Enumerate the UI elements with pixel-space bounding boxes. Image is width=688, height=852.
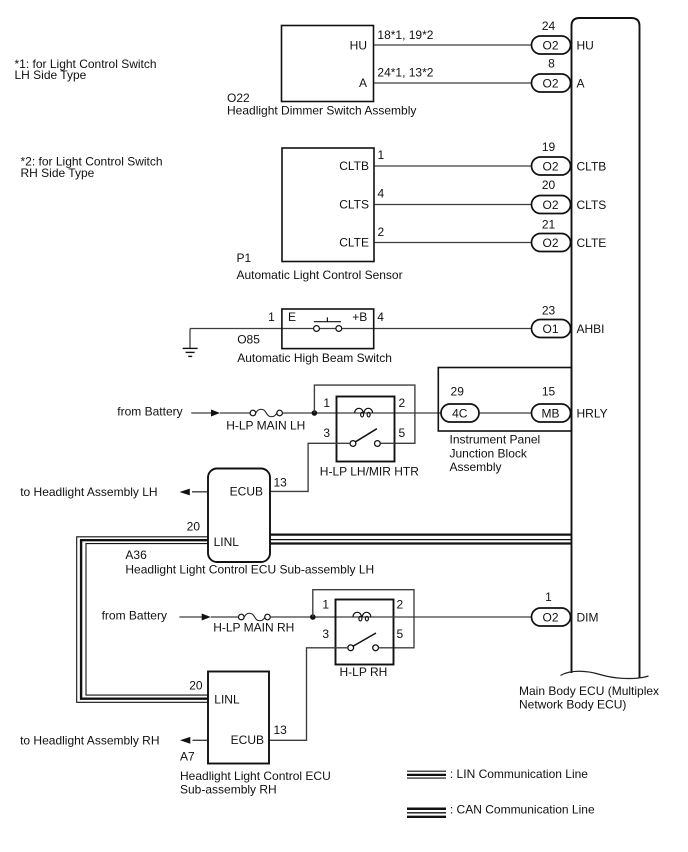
wire P1 CLTE: [374, 242, 532, 244]
svg-text:CLTS: CLTS: [339, 198, 369, 212]
svg-text:Main Body ECU (Multiplex: Main Body ECU (Multiplex: [519, 684, 659, 698]
svg-text:Headlight Light Control ECU Su: Headlight Light Control ECU Sub-assembly…: [125, 563, 374, 577]
svg-text:to Headlight Assembly RH: to Headlight Assembly RH: [20, 734, 159, 748]
svg-text:1: 1: [268, 310, 275, 324]
wire fuse to relay LH: [282, 412, 336, 414]
svg-text:from Battery: from Battery: [117, 404, 182, 418]
svg-text:24*1, 13*2: 24*1, 13*2: [377, 66, 433, 80]
wire arrow to Headlight Assembly LH: [20, 485, 208, 499]
wire P1 CLTS: [374, 204, 532, 206]
svg-text:P1: P1: [237, 251, 252, 265]
svg-text:A7: A7: [180, 749, 195, 763]
connector oval O2 pin 8 A: [532, 56, 585, 92]
wire relay RH pin3 to A7 ECUB: [269, 648, 336, 741]
connector oval O2 pin 20 CLTS: [532, 178, 607, 213]
svg-text:1: 1: [322, 598, 329, 612]
svg-text:23: 23: [542, 303, 556, 317]
svg-text:13: 13: [274, 475, 288, 489]
svg-text:AHBI: AHBI: [577, 322, 605, 336]
svg-text:4: 4: [378, 187, 385, 201]
svg-text:DIM: DIM: [577, 610, 599, 624]
note *1: [15, 57, 157, 82]
svg-text:21: 21: [542, 217, 556, 231]
svg-text:CLTS: CLTS: [577, 198, 607, 212]
svg-text:O2: O2: [542, 38, 558, 52]
wire O22 HU to O2: [374, 44, 532, 46]
svg-text:Sub-assembly RH: Sub-assembly RH: [180, 783, 277, 797]
svg-text:Junction Block: Junction Block: [450, 446, 528, 460]
legend CAN Communication Line: [407, 803, 595, 817]
svg-text:CLTE: CLTE: [577, 236, 607, 250]
svg-text:: LIN Communication Line: : LIN Communication Line: [450, 767, 588, 781]
wire relay LH pin3 to A36 ECUB: [270, 443, 337, 491]
connector oval O2 pin 24 HU: [532, 19, 594, 54]
ground: [183, 329, 198, 357]
svg-text:O2: O2: [542, 610, 558, 624]
node battery feed LH: [117, 404, 250, 418]
LIN bus A36 to ECU: [270, 535, 572, 544]
svg-text:ECUB: ECUB: [230, 484, 263, 498]
svg-text:H-LP MAIN LH: H-LP MAIN LH: [226, 418, 305, 432]
wire P1 CLTB: [374, 165, 532, 167]
svg-text:20: 20: [189, 678, 203, 692]
wire bypass battery to pin5 RH: [313, 590, 414, 648]
svg-text:Assembly: Assembly: [450, 460, 502, 474]
svg-text:HRLY: HRLY: [577, 406, 608, 420]
svg-text:18*1, 19*2: 18*1, 19*2: [377, 28, 433, 42]
wire arrow to Headlight Assembly RH: [20, 734, 208, 748]
svg-text:HU: HU: [350, 38, 367, 52]
svg-text:Instrument Panel: Instrument Panel: [450, 433, 541, 447]
svg-text:A36: A36: [125, 548, 147, 562]
svg-text:CLTE: CLTE: [339, 236, 369, 250]
svg-text:O2: O2: [542, 198, 558, 212]
connector oval O2 pin 19 CLTB: [532, 140, 607, 175]
legend LIN Communication Line: [407, 767, 588, 781]
junction block box Instrument Panel Junction Block Assembly: [438, 368, 571, 475]
svg-text:29: 29: [451, 385, 465, 399]
svg-text:19: 19: [542, 140, 556, 154]
svg-text:O85: O85: [237, 332, 260, 346]
connector oval O2 pin 1 DIM: [532, 590, 599, 626]
connector oval 4C pin 29: [441, 385, 479, 422]
svg-text:LINL: LINL: [214, 692, 240, 706]
svg-text:A: A: [577, 76, 585, 90]
svg-text:H-LP LH/MIR HTR: H-LP LH/MIR HTR: [320, 464, 419, 478]
svg-text:20: 20: [187, 520, 201, 534]
relay K2 H-LP RH: [322, 598, 403, 680]
wire fuse to relay RH: [270, 616, 335, 618]
wire relay LH pin2 to 4C: [395, 412, 441, 414]
svg-text:Automatic Light Control Sensor: Automatic Light Control Sensor: [237, 268, 403, 282]
svg-text:Headlight Light Control ECU: Headlight Light Control ECU: [180, 769, 331, 783]
wire relay RH pin2 to DIM: [393, 616, 532, 618]
svg-text:O2: O2: [542, 159, 558, 173]
svg-text:A: A: [359, 76, 367, 90]
svg-text:to Headlight Assembly LH: to Headlight Assembly LH: [20, 485, 157, 499]
svg-text:20: 20: [542, 178, 556, 192]
svg-text:1: 1: [378, 148, 385, 162]
svg-text:5: 5: [397, 627, 404, 641]
node junction dot LH: [312, 410, 318, 416]
LIN bus left A36 to A7: [77, 537, 208, 703]
svg-text:Automatic High Beam Switch: Automatic High Beam Switch: [237, 351, 392, 365]
wire ground to O85 to O1: [190, 328, 532, 330]
svg-text:4C: 4C: [452, 406, 468, 420]
wire bypass battery to pin5 LH: [314, 385, 415, 443]
svg-text:O2: O2: [542, 236, 558, 250]
svg-text:Network Body ECU): Network Body ECU): [519, 698, 626, 712]
svg-text:O1: O1: [542, 322, 558, 336]
svg-text:1: 1: [323, 396, 330, 410]
svg-text:2: 2: [397, 598, 404, 612]
svg-text:+B: +B: [352, 310, 367, 324]
svg-text:O2: O2: [542, 76, 558, 90]
svg-text:3: 3: [322, 627, 329, 641]
connector oval O2 pin 21 CLTE: [532, 217, 607, 251]
svg-text:CLTB: CLTB: [577, 159, 607, 173]
svg-text:LINL: LINL: [214, 535, 240, 549]
svg-text:5: 5: [399, 426, 406, 440]
connector O22 box Headlight Dimmer Switch Assembly: [227, 26, 416, 118]
connector oval MB pin 15 HRLY: [532, 385, 608, 422]
ECU A7 Headlight Light Control ECU Sub-assembly RH: [180, 672, 331, 797]
svg-text:from Battery: from Battery: [102, 608, 167, 622]
svg-text:: CAN Communication Line: : CAN Communication Line: [450, 803, 595, 817]
svg-text:LH Side Type: LH Side Type: [15, 68, 87, 82]
wire 4C to MB: [479, 412, 532, 414]
svg-text:1: 1: [545, 590, 552, 604]
svg-text:Headlight Dimmer Switch Assemb: Headlight Dimmer Switch Assembly: [227, 104, 416, 118]
fuse H-LP MAIN LH: [226, 409, 305, 432]
connector oval O1 pin 23 AHBI: [532, 303, 605, 337]
fuse H-LP MAIN RH: [213, 613, 294, 634]
svg-text:3: 3: [323, 426, 330, 440]
svg-text:15: 15: [542, 385, 556, 399]
svg-text:CLTB: CLTB: [339, 159, 369, 173]
svg-text:2: 2: [399, 396, 406, 410]
svg-text:24: 24: [542, 19, 556, 33]
sensor P1 box Automatic Light Control Sensor: [237, 148, 403, 282]
relay K1 H-LP LH/MIR HTR: [320, 396, 419, 479]
svg-text:MB: MB: [542, 406, 560, 420]
node junction dot RH: [310, 614, 316, 620]
svg-text:HU: HU: [577, 38, 594, 52]
svg-text:E: E: [288, 310, 296, 324]
svg-text:4: 4: [377, 310, 384, 324]
node battery feed RH: [102, 608, 239, 622]
note *2: [21, 155, 163, 181]
switch O85 box Automatic High Beam Switch: [237, 309, 392, 365]
svg-text:RH Side Type: RH Side Type: [21, 166, 95, 180]
svg-text:8: 8: [548, 56, 555, 70]
wire O22 A to O2: [374, 82, 532, 84]
ECU A36 Headlight Light Control ECU Sub-assembly LH: [125, 469, 374, 577]
svg-text:ECUB: ECUB: [231, 733, 264, 747]
svg-text:2: 2: [378, 225, 385, 239]
svg-text:13: 13: [274, 723, 288, 737]
svg-text:H-LP RH: H-LP RH: [340, 665, 388, 679]
ECU U1 Main Body ECU body: [519, 18, 659, 712]
svg-text:H-LP MAIN RH: H-LP MAIN RH: [213, 621, 294, 635]
